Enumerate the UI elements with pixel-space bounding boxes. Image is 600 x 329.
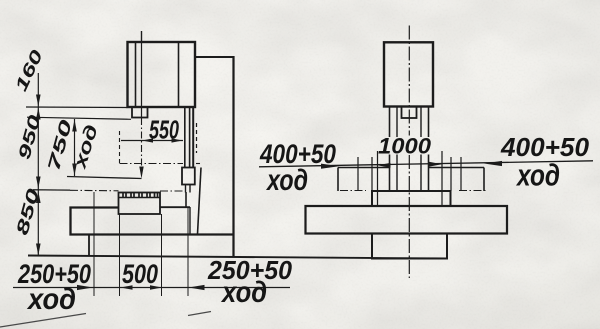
arrow 250+50 left bbox=[77, 285, 93, 290]
column top edge bbox=[195, 56, 234, 58]
arrow on centerline to stroke-end line bbox=[139, 167, 143, 179]
big table bbox=[306, 206, 508, 234]
guide line right of ram bbox=[192, 107, 194, 168]
bed (knee) outline bbox=[71, 208, 234, 235]
centerline upper bbox=[408, 26, 410, 136]
left vertical dimension line (160/950/850 chain) bbox=[37, 73, 39, 256]
svg-text:ход: ход bbox=[26, 283, 76, 316]
column right edge bbox=[232, 56, 234, 257]
dash-dot table level segments bbox=[340, 190, 366, 192]
base under bed bbox=[88, 235, 90, 257]
cross slide top edges bbox=[338, 167, 390, 169]
underline stroke below left ход bbox=[0, 314, 86, 328]
bottom extension lines bbox=[93, 192, 95, 296]
small mark below right ход bbox=[188, 312, 211, 316]
arrow 160 down bbox=[36, 95, 41, 107]
column left edge (lower part) bbox=[198, 168, 202, 235]
550 dimension line bbox=[121, 140, 183, 142]
dash-dot stroke-zone horizontal bbox=[120, 163, 184, 165]
saddle box right of table bbox=[185, 192, 187, 207]
arrow 250+50 right bbox=[189, 285, 205, 290]
column front hidden edge (dashed) bbox=[196, 123, 198, 153]
inner verticals / stroke extension lines bbox=[357, 157, 359, 191]
arrow 850 down bbox=[36, 244, 41, 256]
svg-text:550: 550 bbox=[149, 115, 179, 145]
right dimension line bbox=[259, 161, 593, 167]
arrows 1000 bbox=[378, 163, 391, 168]
dash-dot table level line right of table bbox=[160, 190, 186, 192]
neck below foot bbox=[185, 185, 187, 193]
bottom dimension line bbox=[13, 287, 290, 289]
head box bbox=[384, 42, 433, 106]
spindle quill box under head bbox=[132, 107, 148, 118]
head inner vertical left bbox=[135, 43, 137, 106]
arrow 950 up bbox=[36, 108, 41, 120]
head (spindle head box) bbox=[128, 42, 196, 107]
extension line table level to left bbox=[33, 189, 70, 191]
centerline lower bbox=[408, 155, 410, 278]
saddle/bed top right segment bbox=[160, 206, 190, 208]
svg-text:500: 500 bbox=[122, 259, 158, 289]
ram lines (interrupted by 1000 label) bbox=[389, 107, 391, 138]
spindle centerline through head and below (dash-dot) bbox=[141, 42, 143, 118]
extension line spindle bottom to left bbox=[27, 117, 131, 119]
arrow 950 down bbox=[36, 177, 41, 189]
svg-text:ход: ход bbox=[220, 276, 267, 309]
spindle centerline stub above head bbox=[141, 31, 143, 42]
floor line bbox=[28, 256, 447, 259]
base bbox=[372, 234, 447, 259]
arrow 400+50 left bbox=[321, 164, 339, 169]
saddle bbox=[372, 191, 451, 206]
extension line head bottom to left bbox=[26, 106, 128, 109]
ram left line bbox=[184, 107, 186, 168]
table with T-slots bbox=[119, 193, 161, 215]
svg-text:ход: ход bbox=[265, 164, 308, 197]
arrows 500 bbox=[121, 285, 133, 290]
stroke end line under spindle bbox=[67, 177, 142, 179]
ram right line bbox=[189, 107, 191, 168]
extension lines for 1000 bbox=[377, 151, 379, 206]
arrow 850 up bbox=[36, 191, 41, 203]
dashed stroke-zone vertical bbox=[119, 131, 121, 164]
ram clamp foot block bbox=[182, 168, 195, 185]
svg-text:ход: ход bbox=[515, 158, 560, 193]
arrow 400+50 right bbox=[484, 161, 502, 166]
dash-dot table level line left of table bbox=[33, 189, 70, 191]
T-slot teeth bbox=[123, 193, 158, 198]
svg-text:1000: 1000 bbox=[378, 134, 432, 159]
750 stroke dimension line bbox=[74, 119, 76, 176]
head inner vertical right bbox=[178, 43, 180, 106]
quill box bbox=[402, 107, 417, 119]
cross slide sides bbox=[337, 168, 339, 192]
bed right edge bbox=[189, 207, 191, 234]
